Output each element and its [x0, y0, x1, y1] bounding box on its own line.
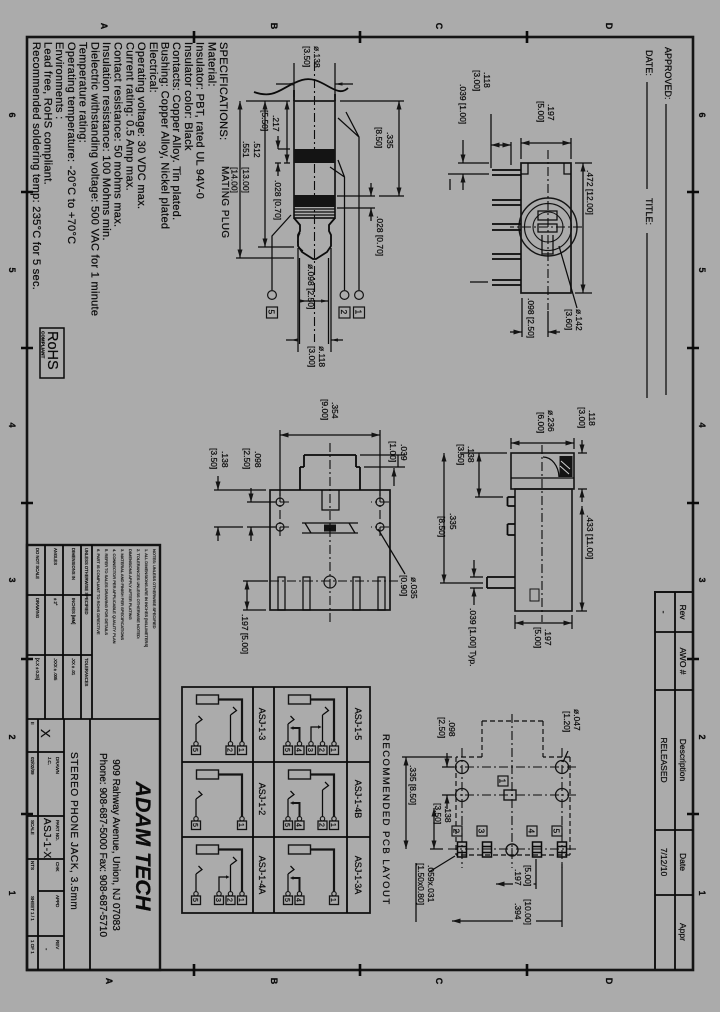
svg-text:ø.142: ø.142	[574, 309, 584, 331]
svg-text:C: C	[434, 23, 444, 30]
bottom tiny row	[30, 722, 35, 954]
svg-text:[1.00]: [1.00]	[388, 441, 398, 462]
svg-text:02/02/09: 02/02/09	[30, 757, 35, 775]
wire sleeve to pin 1 (ASJ-1-4B)	[311, 775, 335, 817]
svg-text:ADAM TECH: ADAM TECH	[131, 781, 155, 911]
svg-text:2: 2	[226, 898, 233, 902]
MATING PLUG label	[219, 166, 230, 239]
leader to contact 1 (sleeve)	[338, 112, 365, 318]
dim .118 [3.00] pin length	[472, 70, 511, 168]
svg-text:Phone: 908-687-5000 Fax: 908-6: Phone: 908-687-5000 Fax: 908-687-5710	[97, 753, 108, 937]
svg-text:.XXX ± .005: .XXX ± .005	[53, 658, 58, 681]
pin box 1 (ASJ-1-3A)	[330, 896, 339, 905]
dim ø.098 [2.50] neck	[300, 258, 329, 344]
pin box 1 (ASJ-1-4B)	[330, 821, 339, 830]
svg-text:2: 2	[339, 310, 349, 315]
schematic cell ASJ-1-4A	[191, 845, 247, 905]
svg-text:5: 5	[552, 829, 562, 834]
pcb pad 1	[504, 790, 516, 800]
svg-text:[3.50]: [3.50]	[456, 444, 466, 465]
sleeve contact symbol (ASJ-1-4A)	[197, 845, 219, 854]
svg-text:Insulation resistance: 100: Insulation resistance: 100 Mohms min.	[100, 42, 112, 241]
svg-text:Temperature rating:: Temperature rating:	[77, 42, 89, 143]
svg-text:Contact resistance: 50 mohm: Contact resistance: 50 mohms max.	[112, 42, 124, 227]
svg-text:APPD: APPD	[55, 895, 60, 908]
svg-text:.433 [11.00]: .433 [11.00]	[585, 515, 595, 559]
schematic grid frame	[182, 687, 370, 913]
svg-text:4. CONNECTOR PER APPLICABLE QU: 4. CONNECTOR PER APPLICABLE QUALITY PLAN	[112, 549, 117, 644]
svg-text:.512: .512	[252, 141, 262, 158]
schematic cell ASJ-1-2	[191, 770, 247, 830]
dim .197/.394 pcb right	[452, 859, 562, 927]
svg-text:[13.00]: [13.00]	[241, 167, 251, 193]
svg-text:Recommended soldering temp:: Recommended soldering temp: 235°C for 5 …	[30, 42, 42, 290]
back view pins	[492, 170, 521, 285]
back view body	[521, 163, 571, 293]
schematic cell ASJ-1-3A	[283, 845, 339, 905]
pin 1 terminal circle (ASJ-1-4A)	[240, 892, 244, 896]
svg-text:1. ALL DIMENSIONS ARE IN INCHE: 1. ALL DIMENSIONS ARE IN INCHES [MILLIME…	[144, 549, 149, 647]
svg-text:4: 4	[295, 748, 302, 752]
svg-text:Description: Description	[678, 739, 688, 782]
pin box 2 (ASJ-1-5)	[318, 746, 327, 755]
svg-text:.028 [0.70]: .028 [0.70]	[375, 216, 385, 256]
approved/date/title stamp	[644, 47, 673, 398]
svg-text:[X.X ± 0.25]: [X.X ± 0.25]	[35, 658, 40, 680]
svg-text:APPROVED:: APPROVED:	[663, 47, 673, 100]
svg-text:-: -	[42, 948, 49, 951]
svg-text:ø.118: ø.118	[317, 346, 327, 367]
svg-text:[3.60]: [3.60]	[564, 309, 574, 330]
pin 2 terminal circle (ASJ-1-4A)	[228, 892, 232, 896]
svg-text:.551: .551	[241, 141, 251, 158]
svg-text:.335: .335	[448, 513, 458, 530]
svg-text:Appr: Appr	[678, 923, 688, 941]
svg-text:ø.035: ø.035	[409, 577, 419, 599]
svg-text:4: 4	[527, 829, 537, 834]
pin box 5 (ASJ-1-4B)	[284, 821, 293, 830]
top view bushing bore notch	[322, 490, 339, 510]
svg-text:DIMENSIONS APPLY AFTER PLATING: DIMENSIONS APPLY AFTER PLATING	[128, 549, 133, 620]
back view bushing circles	[519, 198, 577, 256]
svg-text:[3.50]: [3.50]	[302, 46, 312, 67]
svg-text:2: 2	[697, 734, 707, 739]
pin box 5 (ASJ-1-3A)	[284, 896, 293, 905]
svg-text:3: 3	[214, 898, 221, 902]
svg-text:DATE:: DATE:	[644, 50, 654, 76]
zone numbers top	[697, 112, 707, 895]
side view body	[515, 489, 572, 611]
svg-text:2. TOLERANCES UNLESS OTHERWISE: 2. TOLERANCES UNLESS OTHERWISE NOTED:	[136, 549, 141, 639]
pin box 1 (ASJ-1-3)	[238, 746, 247, 755]
pin 5 terminal circle (ASJ-1-5)	[286, 742, 290, 746]
svg-text:C: C	[434, 978, 444, 985]
svg-text:[1.20]: [1.20]	[562, 711, 572, 732]
pcb pad number boxes	[452, 776, 563, 836]
svg-text:.098 [2.50]: .098 [2.50]	[526, 298, 536, 338]
pin 1 terminal circle (ASJ-1-4B)	[332, 817, 336, 821]
svg-text:Bushing: Copper Alloy, Nick: Bushing: Copper Alloy, Nickel plated	[159, 42, 171, 229]
wire sleeve to pin 1 (ASJ-1-3A)	[311, 850, 335, 892]
svg-text:1: 1	[329, 748, 336, 752]
dim .197 [5.00] top view pins	[240, 581, 268, 654]
svg-text:DRAWING: DRAWING	[35, 598, 40, 618]
leader to contact 5 (tip)	[267, 215, 292, 318]
svg-text:.472 [12.00]: .472 [12.00]	[585, 170, 595, 215]
svg-text:1: 1	[354, 310, 364, 315]
svg-text:Current rating: 0.5 Amp ma: Current rating: 0.5 Amp max.	[123, 42, 135, 191]
dim ø.236 [6.00] bushing dia	[511, 410, 574, 449]
dim .028 [0.70] band2	[337, 183, 385, 256]
svg-text:1: 1	[697, 890, 707, 895]
dim .028 [0.70] band1	[273, 136, 290, 220]
svg-text:[3.00]: [3.00]	[472, 70, 482, 91]
svg-text:D: D	[604, 978, 614, 985]
svg-text:TOLERANCES: TOLERANCES	[84, 658, 89, 687]
schematic cell ASJ-1-3	[191, 695, 247, 755]
dim .551 [14.00]	[230, 101, 295, 258]
pin 2 terminal circle (ASJ-1-5)	[320, 742, 324, 746]
pin box 2 (ASJ-1-3)	[226, 746, 235, 755]
pin 1 terminal circle (ASJ-1-5)	[332, 742, 336, 746]
svg-text:5: 5	[283, 898, 290, 902]
dim ø.035 [0.90] top view holes	[378, 529, 419, 599]
pin box 5 (ASJ-1-2)	[192, 821, 201, 830]
svg-text:COMPLIANT: COMPLIANT	[41, 331, 46, 358]
svg-text:3. MATERIAL AND FINISH PER SPE: 3. MATERIAL AND FINISH PER SPECIFICATION…	[120, 549, 125, 640]
pin 5 terminal circle (ASJ-1-2)	[194, 817, 198, 821]
svg-text:[9.00]: [9.00]	[320, 399, 330, 420]
svg-text:B: B	[269, 23, 279, 30]
pcb slot pads 2,3,4,5	[458, 842, 567, 857]
svg-text:1: 1	[498, 779, 508, 784]
svg-text:Lead free, RoHS compliant.: Lead free, RoHS compliant.	[42, 42, 54, 185]
svg-text:RECOMMENDED PCB LAYOUT: RECOMMENDED PCB LAYOUT	[380, 734, 391, 906]
svg-text:[5.00]: [5.00]	[536, 101, 546, 122]
dim .039 [1.00] pin offset	[448, 84, 489, 190]
svg-text:5: 5	[267, 310, 277, 315]
svg-text:1: 1	[7, 890, 17, 895]
pin 3 terminal circle (ASJ-1-5)	[309, 742, 313, 746]
tolerance/notes table left	[27, 545, 92, 719]
svg-text:1: 1	[237, 823, 244, 827]
svg-text:5: 5	[283, 748, 290, 752]
svg-text:.197 [5.00]: .197 [5.00]	[240, 614, 250, 654]
ring contact and wire to pin 2 (ASJ-1-4A)	[231, 857, 237, 892]
svg-text:2: 2	[318, 823, 325, 827]
dim .059x.031 [1.50x0.80] pcb slot	[416, 856, 455, 922]
svg-text:Rev: Rev	[678, 604, 688, 620]
svg-text:AWO #: AWO #	[678, 647, 688, 674]
wire sleeve to pin 1 (ASJ-1-2)	[219, 775, 243, 817]
svg-text:5: 5	[283, 823, 290, 827]
svg-text:.118: .118	[482, 72, 492, 88]
top view centerlines	[262, 443, 398, 622]
svg-text:.335: .335	[385, 132, 395, 149]
part number row	[27, 719, 64, 970]
svg-text:Operating voltage: 30 VDC: Operating voltage: 30 VDC max.	[135, 42, 147, 209]
svg-text:Contacts: Copper Alloy. Tin: Contacts: Copper Alloy. Tin plated.	[170, 42, 182, 220]
dim .433 [11.00] body length	[576, 506, 595, 611]
svg-text:Material:: Material:	[205, 42, 217, 87]
svg-text:3: 3	[477, 829, 487, 834]
svg-text:A: A	[99, 23, 109, 30]
svg-text:[6.00]: [6.00]	[536, 412, 546, 433]
svg-text:[8.50]: [8.50]	[437, 516, 447, 537]
pin 2 terminal circle (ASJ-1-3)	[228, 742, 232, 746]
svg-text:5: 5	[7, 267, 17, 272]
plug cable break wave	[254, 79, 348, 101]
leader ø.142 [3.60]	[559, 246, 584, 331]
svg-text:X: X	[38, 729, 53, 738]
top view body square	[270, 490, 390, 610]
svg-text:.394: .394	[513, 903, 523, 920]
svg-text:.039: .039	[399, 444, 409, 461]
svg-text:1: 1	[329, 898, 336, 902]
svg-text:1: 1	[329, 823, 336, 827]
svg-text:.059x.031: .059x.031	[426, 865, 436, 903]
pin 3 terminal circle (ASJ-1-4A)	[217, 892, 221, 896]
svg-text:ASJ-1-5: ASJ-1-5	[353, 708, 363, 741]
svg-text:NOTES: UNLESS OTHERWISE SPECIF: NOTES: UNLESS OTHERWISE SPECIFIED	[152, 549, 157, 629]
svg-text:.039 [1.00] Typ.: .039 [1.00] Typ.	[468, 608, 478, 666]
svg-text:5: 5	[191, 748, 198, 752]
zone letters right	[104, 978, 614, 985]
svg-text:Operating temperature: -20°C: Operating temperature: -20°C to +70°C	[65, 42, 77, 244]
pcb center pad	[506, 844, 518, 856]
svg-text:ø.047: ø.047	[572, 709, 582, 731]
top view pin slots	[278, 576, 385, 610]
svg-text:ASJ-1-X: ASJ-1-X	[41, 818, 52, 859]
dim .512 [13.00]	[241, 101, 294, 247]
svg-text:Date: Date	[678, 853, 688, 871]
dim .039 [1.00] top view flange	[360, 441, 409, 486]
svg-text:.039 [1.00]: .039 [1.00]	[458, 84, 468, 124]
side view bushing	[511, 453, 574, 489]
dim ø.047 [1.20] pcb hole	[562, 709, 582, 762]
pin box 4 (ASJ-1-3A)	[295, 896, 304, 905]
svg-text:ASJ-1-3A: ASJ-1-3A	[353, 856, 363, 895]
back view centerlines	[510, 150, 582, 310]
svg-text:.197: .197	[513, 869, 523, 886]
svg-text:1 / 1: 1 / 1	[30, 912, 35, 921]
switch arm pin 3 with arrow (ASJ-1-5)	[311, 727, 319, 742]
svg-text:RELEASED: RELEASED	[659, 737, 669, 782]
svg-text:-: -	[659, 611, 669, 614]
svg-text:5: 5	[191, 823, 198, 827]
side view centerline	[541, 445, 543, 622]
svg-text:5: 5	[191, 898, 198, 902]
svg-text:5: 5	[697, 267, 707, 272]
svg-text:.217: .217	[271, 115, 281, 132]
svg-text:2: 2	[7, 734, 17, 739]
svg-text:Environments :: Environments :	[53, 42, 65, 120]
title block outer	[27, 545, 160, 970]
zone letters left	[99, 23, 614, 30]
sleeve contact symbol (ASJ-1-2)	[197, 770, 219, 779]
dim .472 [12.00]	[575, 163, 595, 293]
dim .197 [5.00] back view	[521, 101, 571, 159]
back view inner contacts	[538, 211, 557, 254]
RECOMMENDED PCB LAYOUT label	[380, 734, 391, 906]
sleeve contact symbol (ASJ-1-3A)	[289, 845, 311, 854]
wire sleeve to pin 1 (ASJ-1-3)	[219, 700, 243, 742]
svg-text:REV: REV	[55, 940, 60, 949]
pin 4 terminal circle (ASJ-1-3A)	[297, 892, 301, 896]
pin box 1 (ASJ-1-5)	[330, 746, 339, 755]
svg-text:[3.50]: [3.50]	[209, 448, 219, 469]
svg-text:ASJ-1-4A: ASJ-1-4A	[257, 856, 267, 895]
svg-text:SCALE: SCALE	[30, 820, 35, 835]
svg-text:[2.50]: [2.50]	[437, 717, 447, 738]
svg-text:MATING PLUG: MATING PLUG	[219, 166, 230, 239]
pin box 5 (ASJ-1-5)	[284, 746, 293, 755]
dim .197 [5.00] side right	[515, 615, 572, 648]
tip contact and wire to pin 5 (ASJ-1-4A)	[196, 866, 202, 892]
top view inner contact band	[302, 523, 358, 533]
pin box 4 (ASJ-1-4B)	[295, 821, 304, 830]
svg-text:± 2°: ± 2°	[53, 598, 58, 606]
ring contact and wire to pin 2 (ASJ-1-3)	[231, 707, 237, 742]
svg-text:[5.00]: [5.00]	[523, 865, 533, 886]
schematic cell ASJ-1-5	[283, 695, 339, 755]
svg-text:[3.50]: [3.50]	[433, 803, 443, 824]
svg-text:[5.00]: [5.00]	[533, 627, 543, 648]
svg-text:CHK: CHK	[55, 862, 60, 872]
svg-text:.197: .197	[543, 629, 553, 646]
zone numbers bottom	[7, 112, 17, 895]
schematic cell ASJ-1-4B	[283, 770, 339, 830]
svg-text:J.C.: J.C.	[47, 757, 52, 765]
svg-text:STEREO PHONE JACK, 3.5mm: STEREO PHONE JACK, 3.5mm	[68, 752, 79, 910]
plug neck and tip	[294, 218, 335, 259]
svg-text:.098: .098	[447, 720, 457, 737]
svg-text:.138: .138	[466, 446, 476, 463]
pin box 4 (ASJ-1-5)	[295, 746, 304, 755]
svg-text:II: II	[30, 722, 35, 725]
svg-text:D: D	[604, 23, 614, 30]
dim .335 [8.50] side	[437, 453, 483, 583]
pin box 3 (ASJ-1-4A)	[215, 896, 224, 905]
svg-text:2: 2	[226, 748, 233, 752]
svg-text:7/12/10: 7/12/10	[659, 848, 669, 877]
ring contact and wire to pin 2 (ASJ-1-5)	[323, 707, 329, 742]
svg-text:4: 4	[295, 823, 302, 827]
svg-text:ø.138: ø.138	[312, 46, 322, 68]
svg-text:ø.236: ø.236	[546, 410, 556, 432]
svg-text:1 OF 1: 1 OF 1	[30, 940, 35, 954]
switch arm pin 4 with arrow (ASJ-1-3A)	[293, 878, 300, 892]
svg-text:DIMENSIONS IN: DIMENSIONS IN	[71, 548, 76, 580]
svg-text:.138: .138	[443, 806, 453, 823]
switch arm pin 3 with arrow (ASJ-1-4A)	[219, 877, 227, 892]
svg-text:INCHES [MM]: INCHES [MM]	[71, 598, 76, 624]
svg-text:5. REFER TO SALES DRAWING FOR: 5. REFER TO SALES DRAWING FOR DETAILS	[104, 549, 109, 635]
svg-text:6. PART IS COMPLIANT TO ROHS D: 6. PART IS COMPLIANT TO ROHS DIRECTIVE	[96, 549, 101, 635]
svg-text:[10.00]: [10.00]	[523, 899, 533, 925]
dim .217 [5.50]	[246, 101, 290, 163]
svg-text:.197: .197	[546, 104, 556, 121]
svg-text:PART NO.: PART NO.	[55, 820, 60, 841]
svg-text:4: 4	[697, 422, 707, 427]
sleeve contact symbol (ASJ-1-3)	[197, 695, 219, 704]
pin 5 terminal circle (ASJ-1-3A)	[286, 892, 290, 896]
leader to contact 2 (ring)	[330, 160, 350, 318]
dim .335 [8.50] pcb	[402, 757, 452, 849]
dim .354 [9.00] top view	[280, 399, 380, 496]
svg-text:6: 6	[7, 112, 17, 117]
company name	[97, 753, 155, 937]
pcb body dashed outline	[456, 721, 570, 855]
svg-text:1: 1	[237, 748, 244, 752]
switch arm pin 4 with arrow (ASJ-1-5)	[293, 728, 300, 742]
dim .335 [8.50] plug	[340, 101, 404, 196]
svg-text:.138: .138	[220, 451, 230, 468]
pin 5 terminal circle (ASJ-1-4A)	[194, 892, 198, 896]
pin 5 terminal circle (ASJ-1-4B)	[286, 817, 290, 821]
svg-text:[8.50]: [8.50]	[374, 127, 384, 148]
svg-text:B: B	[269, 978, 279, 985]
svg-text:Electrical:: Electrical:	[147, 42, 159, 93]
pin 1 terminal circle (ASJ-1-3A)	[332, 892, 336, 896]
svg-text:TITLE:: TITLE:	[644, 198, 654, 225]
svg-text:[1.50x0.80]: [1.50x0.80]	[416, 863, 426, 905]
svg-text:2: 2	[452, 829, 462, 834]
svg-text:RoHS: RoHS	[44, 331, 60, 370]
RoHS compliant logo	[40, 328, 64, 378]
plug insulator band 1	[294, 149, 335, 163]
dim .098 [2.50] top view	[242, 448, 275, 541]
side view bushing nut section (black)	[543, 456, 573, 477]
svg-text:ø.098 [2.50]: ø.098 [2.50]	[306, 264, 316, 309]
svg-text:Insulator: PBT, rated UL 9: Insulator: PBT, rated UL 94V-0	[194, 42, 206, 199]
svg-text:Insulator color: Black: Insulator color: Black	[182, 42, 194, 151]
tip contact and wire to pin 5 (ASJ-1-3A)	[288, 866, 294, 892]
pin 4 terminal circle (ASJ-1-5)	[297, 742, 301, 746]
schematic labels	[257, 708, 363, 895]
wire sleeve to pin 1 (ASJ-1-5)	[311, 700, 335, 742]
tolerance rows tiny text	[35, 548, 89, 687]
svg-text:ANGLES: ANGLES	[53, 548, 58, 565]
svg-text:NTS: NTS	[30, 861, 35, 870]
pin 4 terminal circle (ASJ-1-4B)	[297, 817, 301, 821]
svg-text:ASJ-1-4B: ASJ-1-4B	[353, 780, 363, 819]
svg-text:[0.90]: [0.90]	[399, 575, 409, 596]
svg-text:4: 4	[7, 422, 17, 427]
dim .138 [3.50] top view	[209, 448, 266, 541]
dim .138 [3.50] pcb	[430, 803, 453, 849]
pin box 2 (ASJ-1-4B)	[318, 821, 327, 830]
tip contact and wire to pin 5 (ASJ-1-2)	[196, 791, 202, 817]
plug sleeve body	[294, 101, 335, 218]
tip contact and wire to pin 5 (ASJ-1-3)	[196, 716, 202, 742]
wire sleeve to pin 1 (ASJ-1-4A)	[219, 850, 243, 892]
pin box 5 (ASJ-1-4A)	[192, 896, 201, 905]
svg-text:4: 4	[295, 898, 302, 902]
svg-text:6: 6	[697, 112, 707, 117]
svg-text:.028 [0.70]: .028 [0.70]	[273, 180, 283, 220]
sleeve contact symbol (ASJ-1-4B)	[289, 770, 311, 779]
dim .138 [3.50] side	[456, 444, 507, 497]
pin 2 terminal circle (ASJ-1-4B)	[320, 817, 324, 821]
plug knurl rings	[294, 209, 335, 215]
pcb centerlines	[448, 714, 576, 868]
svg-text:1: 1	[237, 898, 244, 902]
svg-text:ASJ-1-3: ASJ-1-3	[257, 708, 267, 741]
switch arm pin 4 with arrow (ASJ-1-4B)	[293, 803, 300, 817]
svg-text:A: A	[104, 978, 114, 985]
svg-text:[3.00]: [3.00]	[577, 407, 587, 428]
